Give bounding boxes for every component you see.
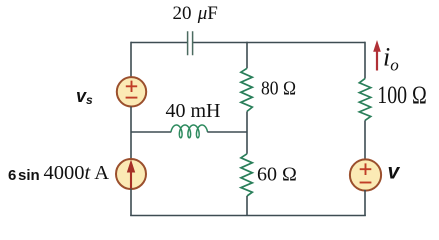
wire bottom — [130, 215, 366, 217]
svg-text:60 Ω: 60 Ω — [257, 164, 297, 186]
wire middle vertical bottom — [246, 196, 248, 216]
svg-text:100 Ω: 100 Ω — [377, 82, 427, 109]
current source arrow — [130, 171, 132, 188]
vs minus sign — [126, 97, 138, 99]
v minus sign — [360, 182, 372, 184]
inductor L 40 mH coil — [171, 125, 208, 138]
resistor 100 ohm zigzag — [359, 79, 370, 121]
wire middle vertical top stub — [246, 42, 248, 69]
wire middle horizontal left of coil — [131, 131, 171, 133]
resistor 80 ohm zigzag — [241, 68, 252, 111]
svg-text:40 mH: 40 mH — [166, 100, 221, 122]
resistor 60 ohm zigzag — [241, 154, 252, 196]
wire top right segment — [193, 42, 365, 44]
wire left vertical upper — [130, 42, 132, 77]
wire middle horizontal right of coil — [207, 131, 247, 133]
svg-text:80 Ω: 80 Ω — [261, 79, 296, 100]
capacitor C 20uF plates — [188, 31, 193, 55]
svg-text:6: 6 — [8, 167, 16, 184]
svg-text:io: io — [383, 43, 399, 75]
wire right vertical bottom — [364, 190, 366, 216]
current arrow io — [376, 50, 378, 71]
svg-text:4000t A: 4000t A — [44, 162, 110, 184]
svg-text:sin: sin — [18, 167, 40, 184]
svg-text:v: v — [388, 161, 401, 184]
wire top left segment — [131, 42, 188, 44]
wire left vertical middle — [130, 106, 132, 159]
svg-text:vs: vs — [76, 86, 93, 107]
wire right vertical top — [364, 42, 366, 79]
current source 6 sin 4000t A — [116, 159, 146, 189]
wire right vertical mid — [364, 120, 366, 160]
wire left vertical lower — [130, 189, 132, 216]
voltage source v — [350, 159, 381, 190]
v plus sign — [360, 163, 372, 175]
voltage source vs — [117, 77, 146, 106]
vs plus sign — [126, 81, 137, 92]
svg-text:20 μF: 20 μF — [173, 3, 218, 24]
wire middle vertical mid — [246, 111, 248, 153]
